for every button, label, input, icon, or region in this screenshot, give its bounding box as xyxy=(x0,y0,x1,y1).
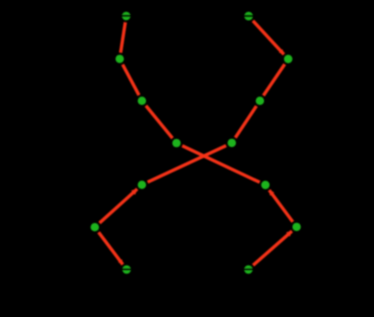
arrowhead into node A6 xyxy=(286,231,292,237)
node A3 xyxy=(138,97,146,105)
strike bar on node B7 xyxy=(122,268,131,270)
node B7 (end marker) xyxy=(122,265,131,274)
arrowhead into node A5 xyxy=(269,190,274,196)
node B1 (start marker) xyxy=(244,12,253,21)
node B6 xyxy=(91,223,99,231)
strike bar on node A7 xyxy=(244,268,253,270)
arrowhead into node B7 xyxy=(118,259,123,265)
node B4 xyxy=(228,139,236,147)
node A7 (end marker) xyxy=(244,265,253,274)
wire edge B1-B2 xyxy=(253,21,284,55)
wire edge B3-B4 xyxy=(235,106,256,138)
wire edge B2-B3 xyxy=(263,64,284,95)
strike bar on node B1 xyxy=(244,15,253,17)
wire edge B4-B5 crossing xyxy=(148,146,227,183)
node B5 xyxy=(138,181,146,189)
arrowhead into node B2 xyxy=(279,49,284,55)
arrowhead into node B5 xyxy=(131,189,137,195)
wire edge B6-B7 xyxy=(99,232,123,264)
node A1 (start marker) xyxy=(122,12,131,21)
node A2 xyxy=(116,55,124,63)
wire edge A2-A3 xyxy=(123,65,139,96)
wire edge A6-A7 xyxy=(253,231,292,265)
wire edge A3-A4 xyxy=(146,106,173,139)
wire edge A5-A6 xyxy=(269,190,293,222)
node B3 xyxy=(256,97,264,105)
node A6 xyxy=(292,223,300,231)
node A4 xyxy=(172,139,180,147)
wire edge A1-A2 xyxy=(121,22,126,53)
node A5 xyxy=(261,181,269,189)
wire edge B5-B6 xyxy=(100,189,138,223)
node B2 xyxy=(284,55,292,63)
wire edge A4-A5 crossing xyxy=(182,146,260,183)
strike bar on node A1 xyxy=(122,15,131,17)
